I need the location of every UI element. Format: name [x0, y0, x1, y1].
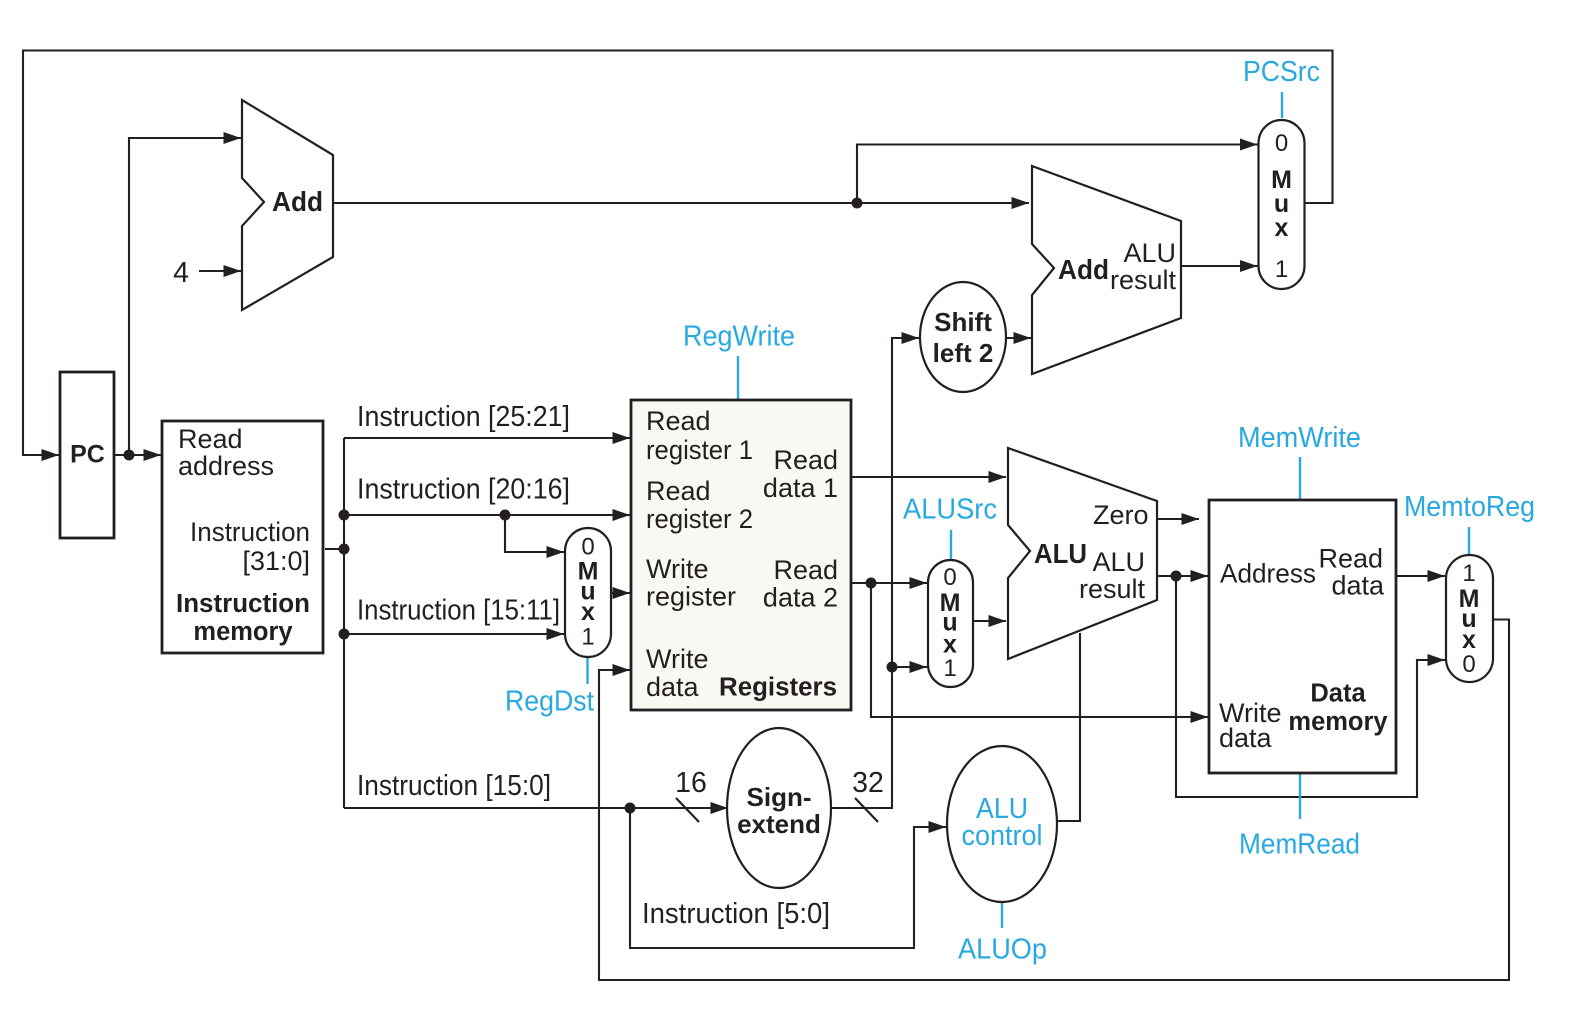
- wire PC output to instruction memory read address: [114, 454, 161, 456]
- svg-text:RegDst: RegDst: [505, 686, 594, 718]
- svg-text:ALU: ALU: [1123, 238, 1176, 268]
- svg-text:ALU: ALU: [1092, 547, 1145, 577]
- svg-text:result: result: [1110, 265, 1177, 295]
- wire Instruction [5:0] to ALU control: [630, 808, 946, 948]
- junction dot PC+4 branch: [852, 198, 863, 209]
- data memory box: [1209, 500, 1396, 773]
- wire ALU control output to ALU: [1056, 633, 1080, 821]
- mux MemtoReg: [1446, 555, 1493, 682]
- svg-text:0: 0: [581, 534, 594, 561]
- svg-text:1: 1: [1462, 560, 1475, 587]
- svg-text:16: 16: [675, 767, 707, 799]
- svg-text:ALUSrc: ALUSrc: [903, 494, 997, 526]
- svg-text:ALUOp: ALUOp: [958, 934, 1047, 966]
- slash 16-bit bus width mark: [676, 798, 699, 822]
- svg-text:1: 1: [581, 624, 594, 651]
- svg-text:PCSrc: PCSrc: [1243, 56, 1320, 88]
- svg-text:register: register: [646, 582, 736, 612]
- control line RegDst: [586, 658, 588, 684]
- wire Read data 2 to ALUSrc mux input 0: [851, 582, 927, 584]
- svg-text:RegWrite: RegWrite: [683, 321, 795, 353]
- svg-text:Instruction: Instruction: [190, 517, 310, 547]
- oval sign-extend: [727, 728, 831, 888]
- wire ALU result bypass to MemtoReg mux input 0: [1176, 576, 1445, 797]
- wire instruction memory output stub: [325, 548, 344, 550]
- wire MemtoReg mux output write-back to registers write data: [599, 620, 1509, 981]
- wire Instruction [15:0] to sign-extend: [344, 807, 728, 809]
- control line ALUOp: [1001, 903, 1003, 928]
- wire Add1 output PC+4 to Add2 top input: [333, 202, 1029, 204]
- svg-text:[31:0]: [31:0]: [242, 546, 310, 576]
- svg-text:data 2: data 2: [763, 583, 838, 613]
- svg-text:ALU: ALU: [1034, 538, 1087, 569]
- wire shift left 2 output to Add2 bottom input: [1006, 337, 1031, 339]
- svg-text:Write: Write: [646, 554, 709, 584]
- svg-text:0: 0: [1275, 130, 1288, 157]
- svg-text:Instruction [20:16]: Instruction [20:16]: [357, 474, 570, 506]
- svg-text:0: 0: [943, 564, 956, 591]
- wire Instruction [20:16] branch to RegDst mux input 0: [505, 515, 564, 552]
- wire Read data 1 to ALU top input: [851, 476, 1006, 478]
- svg-text:Instruction [5:0]: Instruction [5:0]: [642, 898, 830, 930]
- svg-text:MemWrite: MemWrite: [1238, 422, 1361, 454]
- svg-text:memory: memory: [1288, 708, 1388, 736]
- control line MemWrite: [1299, 457, 1301, 499]
- svg-text:Data: Data: [1310, 680, 1366, 708]
- wire branch to ALUSrc mux input 1: [892, 666, 927, 668]
- adder Add2 (branch target): [1032, 166, 1181, 374]
- svg-text:MemRead: MemRead: [1239, 829, 1360, 861]
- control line RegWrite: [737, 356, 739, 399]
- svg-text:1: 1: [1275, 256, 1288, 283]
- svg-text:Add: Add: [1058, 254, 1109, 285]
- wire Add2 output to PCSrc mux input 1: [1181, 265, 1258, 267]
- svg-text:extend: extend: [737, 809, 821, 839]
- oval ALU control: [947, 746, 1057, 902]
- svg-text:left 2: left 2: [933, 338, 994, 368]
- wire Instruction [25:21] to Read register 1: [344, 437, 630, 439]
- registers box: [631, 400, 851, 710]
- svg-text:register 2: register 2: [646, 504, 753, 534]
- svg-text:Address: Address: [1220, 559, 1316, 589]
- wire ALU Zero output: [1158, 518, 1199, 520]
- svg-text:1: 1: [943, 655, 956, 682]
- oval shift left 2: [920, 282, 1006, 392]
- junction dot sign-extend output branch: [887, 662, 898, 673]
- svg-text:4: 4: [173, 257, 189, 289]
- register PC: [60, 372, 114, 538]
- control line PCSrc: [1281, 92, 1283, 118]
- control line ALUSrc: [950, 530, 952, 559]
- svg-text:PC: PC: [70, 441, 105, 469]
- svg-text:memory: memory: [193, 618, 293, 646]
- wire PC output branch up to Add1 input: [129, 138, 241, 455]
- wire Read data 2 branch to data memory write data: [871, 583, 1208, 717]
- svg-text:Instruction [25:21]: Instruction [25:21]: [357, 401, 570, 433]
- svg-text:Instruction [15:11]: Instruction [15:11]: [357, 595, 560, 627]
- wire ALUSrc mux output to ALU bottom input: [973, 620, 1006, 622]
- svg-text:data: data: [646, 672, 700, 702]
- svg-text:x: x: [1462, 626, 1476, 654]
- wire Instruction [20:16] to Read register 2: [344, 514, 630, 516]
- svg-text:x: x: [1275, 214, 1289, 242]
- svg-text:MemtoReg: MemtoReg: [1404, 491, 1535, 523]
- mux RegDst: [565, 528, 611, 657]
- junction dot instruction bus at [15:11]: [339, 629, 350, 640]
- svg-text:data: data: [1331, 571, 1385, 601]
- control line MemtoReg: [1468, 527, 1470, 554]
- svg-text:Instruction: Instruction: [176, 590, 310, 618]
- ALU main: [1008, 448, 1157, 659]
- svg-text:Read: Read: [646, 406, 711, 436]
- junction dot [15:0] branch: [625, 803, 636, 814]
- svg-text:address: address: [178, 451, 274, 481]
- svg-text:Sign-: Sign-: [747, 782, 812, 812]
- svg-text:Zero: Zero: [1093, 500, 1149, 530]
- wire ALU result to data memory address: [1158, 575, 1208, 577]
- svg-text:Read: Read: [773, 555, 838, 585]
- instruction memory box: [162, 421, 323, 653]
- junction dot [20:16] branch to mux: [500, 510, 511, 521]
- svg-text:data: data: [1219, 723, 1273, 753]
- wire instruction bus vertical: [343, 438, 345, 808]
- junction dot instruction bus at output: [339, 544, 350, 555]
- junction dot read data 2 branch: [866, 578, 877, 589]
- junction dot instruction bus at [20:16]: [339, 510, 350, 521]
- svg-text:x: x: [581, 598, 595, 626]
- control line MemRead: [1299, 774, 1301, 819]
- junction dot PC output: [124, 450, 135, 461]
- adder Add1 (PC+4): [242, 100, 333, 310]
- svg-text:Read: Read: [178, 424, 243, 454]
- svg-text:Read: Read: [773, 445, 838, 475]
- svg-text:Read: Read: [1318, 544, 1383, 574]
- svg-text:Add: Add: [272, 186, 323, 217]
- wire sign-extend output up to shift left 2 input: [831, 338, 919, 808]
- svg-text:Read: Read: [646, 476, 711, 506]
- mux ALUSrc: [928, 560, 973, 687]
- wire PC+4 branch up to PCSrc mux input 0: [857, 145, 1258, 204]
- svg-text:Write: Write: [646, 644, 709, 674]
- wire RegDst mux output to write register: [611, 592, 630, 594]
- wire data memory read data to MemtoReg mux input 1: [1396, 575, 1445, 577]
- svg-text:result: result: [1079, 574, 1146, 604]
- svg-text:Shift: Shift: [934, 307, 992, 337]
- mux PCSrc: [1259, 120, 1305, 289]
- svg-text:Registers: Registers: [719, 674, 837, 702]
- wire PC feedback loop from PCSrc mux output to PC input: [23, 51, 1333, 456]
- svg-text:Instruction [15:0]: Instruction [15:0]: [357, 770, 551, 802]
- wire Instruction [15:11] to RegDst mux input 1: [344, 633, 564, 635]
- svg-text:register 1: register 1: [646, 435, 753, 465]
- svg-text:32: 32: [852, 767, 884, 799]
- svg-text:data 1: data 1: [763, 473, 838, 503]
- slash 32-bit bus width mark: [855, 798, 878, 822]
- svg-text:control: control: [962, 820, 1043, 852]
- svg-text:0: 0: [1462, 651, 1475, 678]
- junction dot ALU result branch: [1171, 571, 1182, 582]
- wire constant 4 into Add1: [199, 270, 241, 272]
